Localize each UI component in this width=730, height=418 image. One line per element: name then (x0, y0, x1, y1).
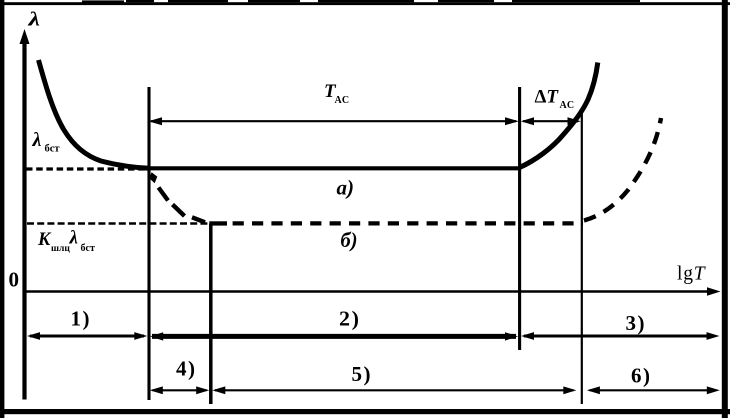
svg-text:5): 5) (352, 362, 373, 386)
curve b) descending branch (dashed) (159, 188, 206, 223)
vertical line V1 (left boundary of plateau) (147, 87, 150, 400)
svg-text:ΔT: ΔT (535, 87, 560, 108)
interval arrow 6) (590, 389, 717, 391)
svg-text:бст: бст (45, 144, 61, 155)
svg-text:λ: λ (69, 228, 78, 249)
curve a) rising branch (520, 63, 598, 168)
svg-text:1): 1) (71, 307, 92, 331)
vertical line V2 (boundary 4/5) (209, 224, 213, 405)
y-axis (22, 40, 26, 400)
svg-text:6): 6) (631, 364, 652, 388)
svg-text:АС: АС (335, 95, 350, 106)
outer frame border: bottom edge (0, 409, 730, 414)
x-axis (25, 290, 715, 293)
delta T_AC span arrow (double headed) (523, 120, 578, 122)
curve b) rising branch (dashed) (584, 118, 661, 221)
interval arrow 5) (215, 389, 574, 391)
curve b) start mark at junction (149, 172, 157, 183)
dashed guide line at K*lambda_bst level (27, 222, 209, 225)
top border doubling marks (82, 0, 124, 4)
svg-text:λ: λ (27, 9, 40, 31)
vertical line V4 (boundary 5/6) (581, 109, 583, 404)
svg-text:λ: λ (32, 129, 42, 151)
svg-text:3): 3) (626, 311, 647, 335)
outer frame border: right edge (722, 0, 728, 418)
svg-text:4): 4) (176, 357, 197, 381)
svg-text:шлц: шлц (51, 244, 70, 254)
interval arrow 2) (152, 334, 516, 339)
curve b) flat section (dashed) (209, 221, 227, 225)
interval arrow 1) (30, 335, 144, 338)
svg-text:2): 2) (339, 307, 361, 331)
svg-text:K: K (37, 230, 52, 250)
outer frame border: left edge (0, 0, 4, 418)
curve a) flat plateau (147, 166, 520, 170)
T_AC span arrow (double headed) (151, 120, 516, 122)
outer frame border: top edge (0, 2, 730, 5)
vertical line V3 (right boundary of plateau) (518, 87, 521, 350)
interval arrow 3) (524, 335, 715, 338)
svg-text:б): б) (341, 228, 358, 252)
interval arrow 4) (153, 389, 207, 391)
x-axis arrowhead (707, 287, 721, 295)
svg-text:lgT: lgT (677, 264, 706, 285)
svg-text:0: 0 (9, 268, 20, 292)
curve a) descending branch (39, 60, 150, 168)
dashed guide line at lambda_bst level (26, 167, 147, 170)
svg-text:бст: бст (81, 243, 95, 254)
svg-text:АС: АС (560, 100, 575, 111)
svg-text:а): а) (337, 176, 355, 200)
y-axis arrowhead (20, 29, 30, 44)
